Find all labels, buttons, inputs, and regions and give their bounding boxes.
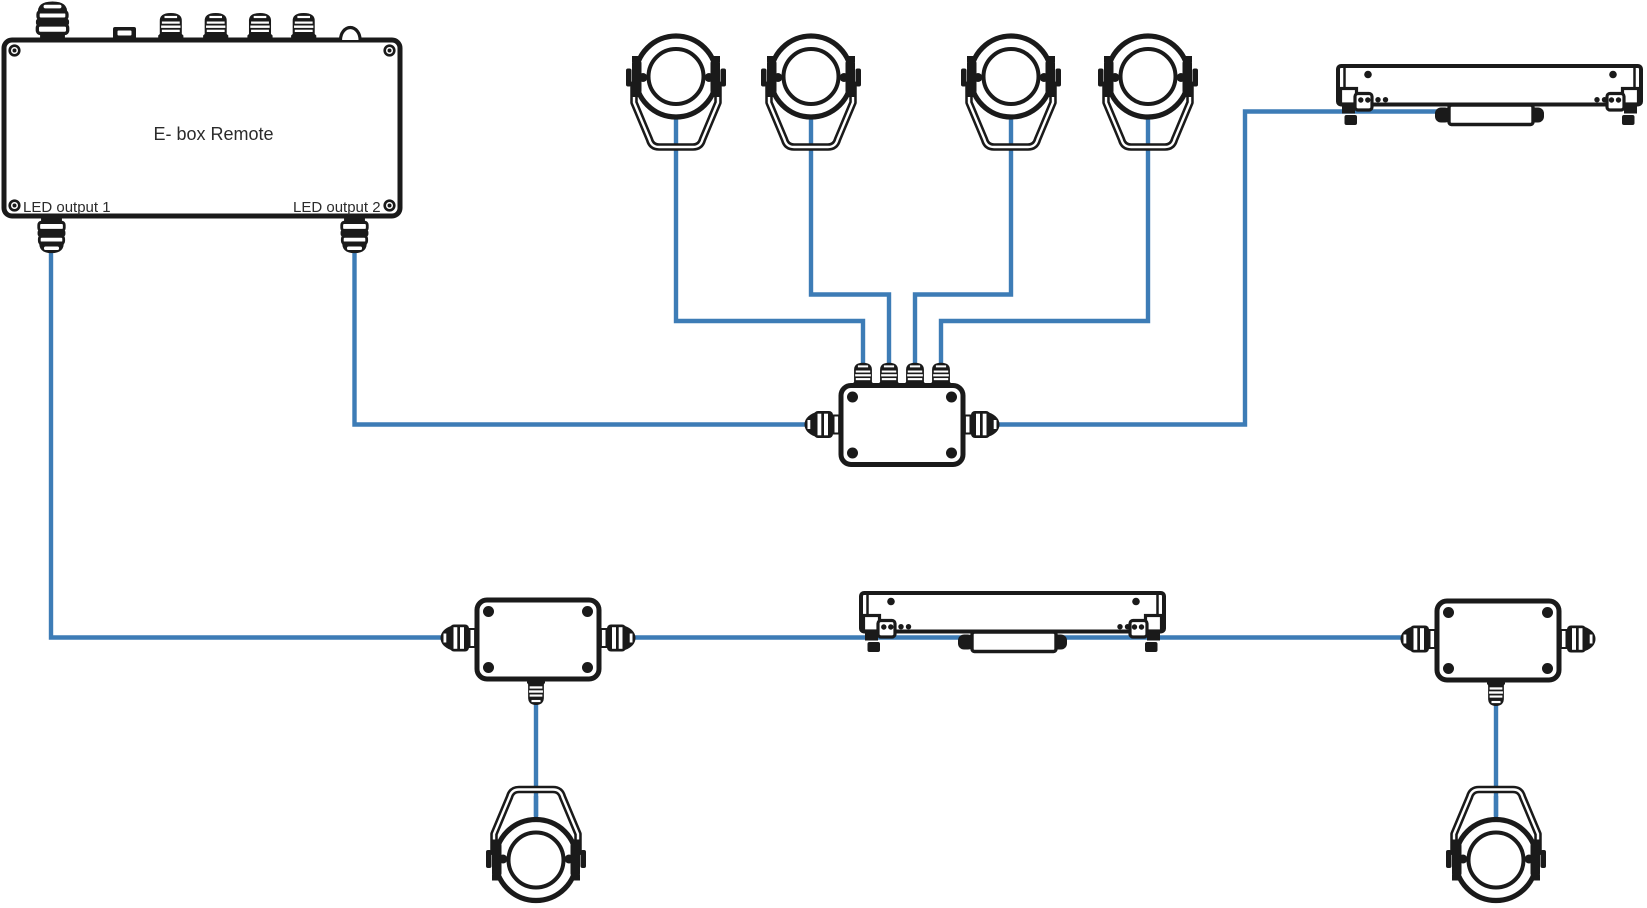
wire W1: E-box LED output 1 to junction box JB1 left gland <box>51 250 452 638</box>
wire W10: JB2 bottom gland to bottom spotlight SP6 <box>1494 680 1498 818</box>
spotlight SP1 <box>626 36 726 147</box>
wire W9 visible segment over SP5 bracket <box>534 796 538 816</box>
JB0 top gland 1 <box>853 363 873 388</box>
junction box JB1 body <box>477 600 599 679</box>
spotlight SP2 <box>761 36 861 147</box>
JB0 top gland 2 <box>879 363 899 388</box>
E-box top DMX tab connector <box>113 27 136 41</box>
E-box top handle loop <box>341 27 361 40</box>
wire W10 visible segment over SP6 bracket <box>1494 796 1498 816</box>
E-box top power cable gland <box>36 1 69 40</box>
JB2 left gland <box>1401 626 1440 653</box>
wire W8: JB1 right gland through bottom bar B2 to JB2 left gland <box>623 635 1412 639</box>
spotlight SP4 <box>1098 36 1198 147</box>
JB1 right gland <box>597 625 636 652</box>
E-box corner screw bottom-right <box>385 201 395 211</box>
wire W3: spotlight SP1 to JB0 top gland 1 <box>676 115 863 370</box>
JB2 right gland <box>1557 626 1596 653</box>
JB0 right gland <box>961 411 1000 438</box>
bar fixture B2 bottom center <box>861 593 1164 652</box>
spotlight SP6 bottom right <box>1446 790 1546 901</box>
svg-text:LED output 2: LED output 2 <box>293 199 381 216</box>
E-box top antenna gland 4 <box>291 13 316 41</box>
wire W6: spotlight SP4 to JB0 top gland 4 <box>941 115 1148 370</box>
JB0 left gland <box>805 411 844 438</box>
wire W5: spotlight SP3 to JB0 top gland 3 <box>915 115 1011 370</box>
E-box corner screw top-left <box>10 46 20 56</box>
E-box top antenna gland 1 <box>158 13 183 41</box>
wire W7: JB0 right gland to top bar fixture B1 <box>991 112 1446 425</box>
junction box JB2 body <box>1437 601 1559 680</box>
E-box corner screw top-right <box>385 46 395 56</box>
bar fixture B1 top right <box>1338 66 1641 125</box>
wire W2: E-box LED output 2 to junction box JB0 left gland <box>355 250 818 425</box>
svg-text:E- box Remote: E- box Remote <box>154 124 274 144</box>
E-box LED output 2 gland <box>341 216 369 254</box>
controller E-box Remote body <box>4 40 400 216</box>
svg-text:LED output 1: LED output 1 <box>23 199 111 216</box>
E-box top antenna gland 2 <box>203 13 228 41</box>
spotlight SP5 bottom left <box>486 790 586 901</box>
wire W9: JB1 bottom gland to bottom spotlight SP5 <box>534 680 538 818</box>
JB1 left gland <box>441 625 480 652</box>
JB2 bottom gland <box>1487 679 1505 706</box>
E-box LED output 1 gland <box>38 216 66 254</box>
E-box top antenna gland 3 <box>247 13 272 41</box>
E-box corner screw bottom-left <box>10 201 20 211</box>
junction box JB0 body <box>841 386 963 465</box>
spotlight SP3 <box>961 36 1061 147</box>
wire W4: spotlight SP2 to JB0 top gland 2 <box>811 115 889 370</box>
JB0 top gland 4 <box>931 363 951 388</box>
JB0 top gland 3 <box>905 363 925 388</box>
JB1 bottom gland <box>527 678 545 705</box>
